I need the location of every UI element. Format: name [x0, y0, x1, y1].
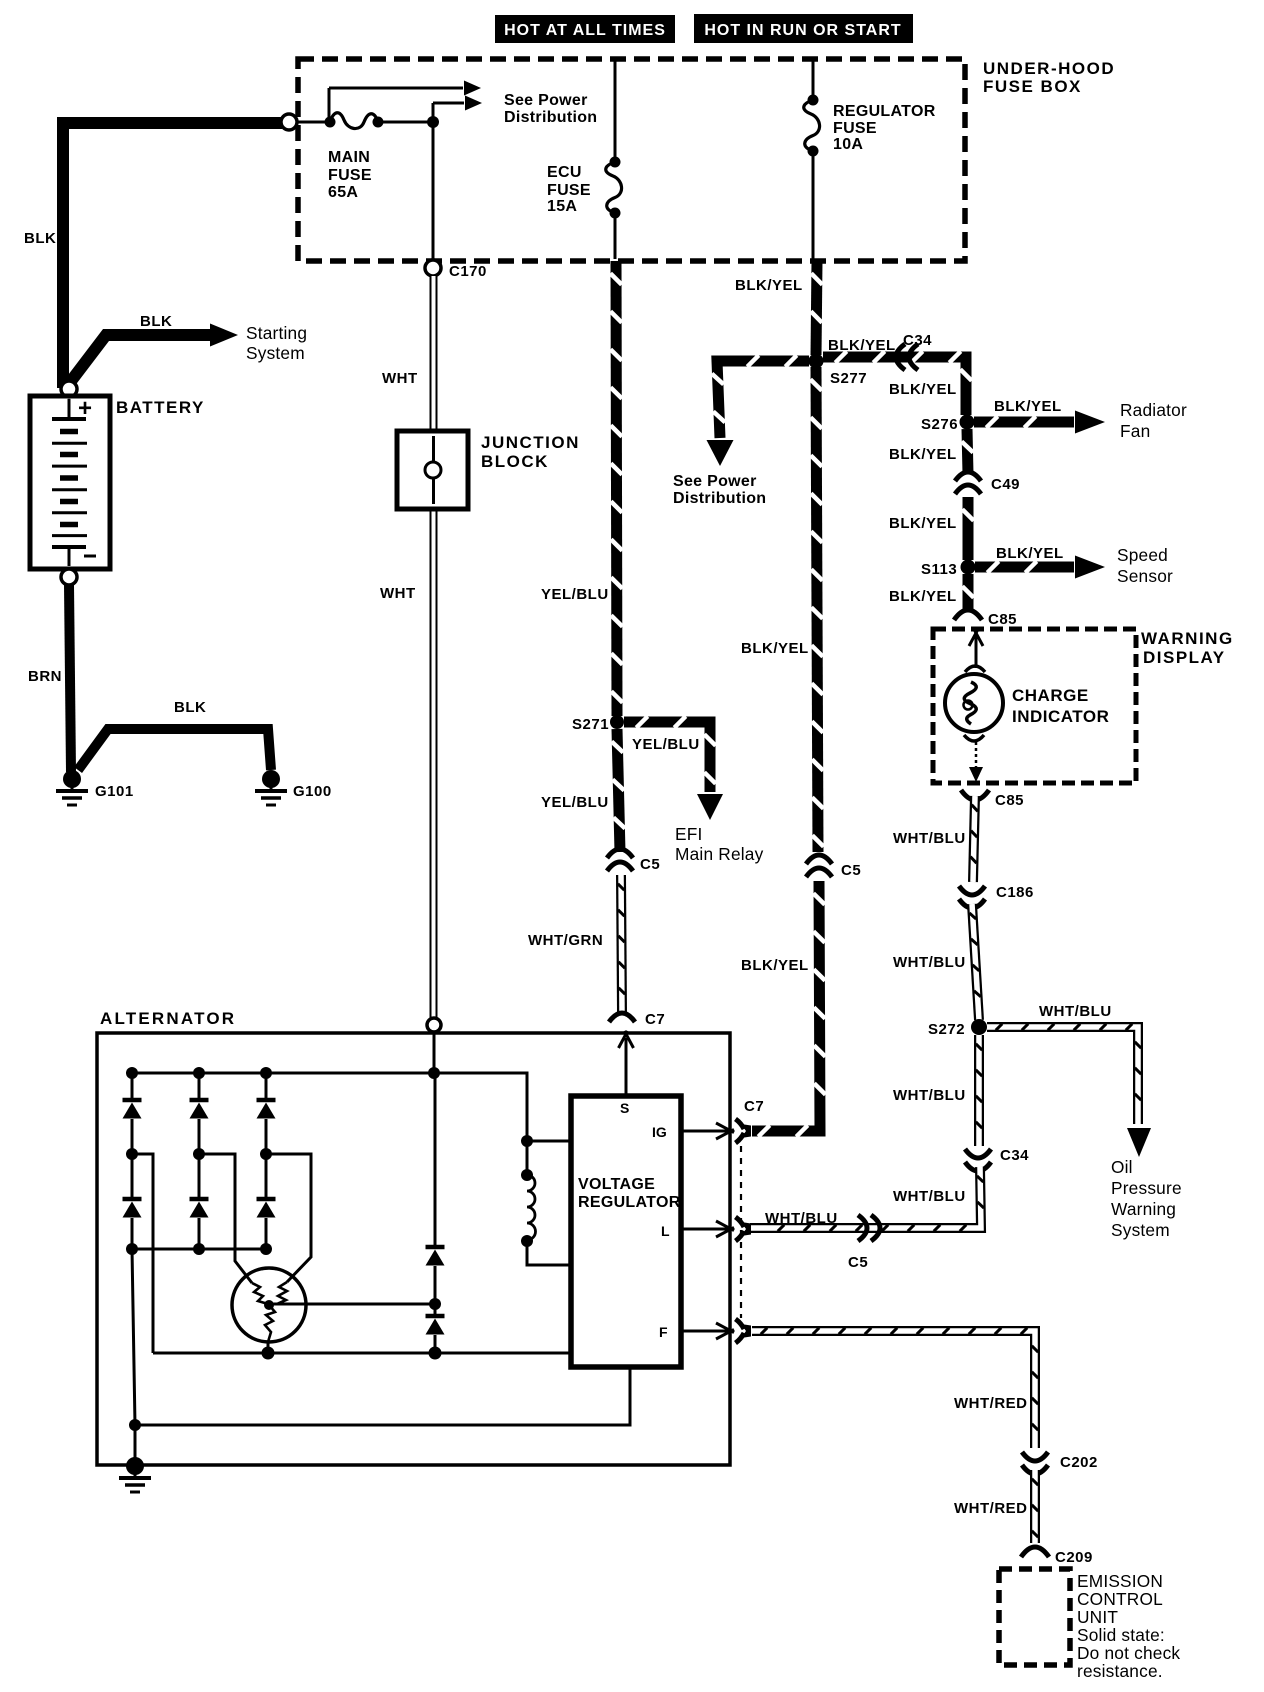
- pin F wire: [681, 1323, 734, 1339]
- svg-text:WHT/RED: WHT/RED: [954, 1500, 1028, 1517]
- header label HOT IN RUN OR START: [694, 14, 913, 43]
- rectifier diode pair column 3: [257, 1073, 276, 1255]
- svg-text:G101: G101: [95, 783, 134, 800]
- svg-text:C209: C209: [1055, 1549, 1093, 1566]
- svg-text:WARNING: WARNING: [1141, 629, 1234, 648]
- svg-text:Radiator: Radiator: [1120, 400, 1187, 420]
- svg-text:resistance.: resistance.: [1077, 1661, 1163, 1681]
- svg-text:BLK: BLK: [140, 313, 172, 330]
- wire phase tap 3 (to stator): [266, 1154, 311, 1282]
- ground G100: [255, 770, 332, 805]
- wire YEL/BLU ECU fuse to S271: [541, 261, 623, 716]
- wire BLK battery to fuse box: [24, 123, 282, 388]
- svg-text:C7: C7: [645, 1011, 665, 1028]
- svg-text:Fan: Fan: [1120, 421, 1150, 441]
- svg-text:YEL/BLU: YEL/BLU: [541, 794, 609, 811]
- svg-text:S: S: [620, 1100, 629, 1116]
- wire BLK/YEL S277 to see power distribution: [673, 355, 809, 507]
- connector C170: [425, 260, 487, 280]
- svg-text:C85: C85: [988, 611, 1017, 628]
- svg-text:DISPLAY: DISPLAY: [1143, 648, 1226, 667]
- connector C186: [959, 884, 1034, 908]
- svg-text:65A: 65A: [328, 184, 358, 201]
- svg-text:WHT/BLU: WHT/BLU: [893, 1188, 966, 1205]
- svg-text:WHT/BLU: WHT/BLU: [893, 830, 966, 847]
- under-hood fuse box (dashed): [298, 59, 1115, 261]
- splice S276: [921, 415, 975, 434]
- svg-text:HOT AT ALL TIMES: HOT AT ALL TIMES: [504, 22, 666, 39]
- voltage regulator U1: [571, 1096, 681, 1367]
- svg-text:Do not check: Do not check: [1077, 1643, 1180, 1663]
- svg-text:WHT: WHT: [382, 370, 418, 387]
- battery BATTERY: [30, 395, 205, 569]
- wire BLK/YEL S276 to C49: [889, 429, 973, 474]
- wire WHT/BLU S272 to oil pressure warning: [987, 1003, 1182, 1240]
- connector at alternator (open circle): [427, 1018, 441, 1032]
- wire alternator top bus: [126, 1067, 569, 1147]
- svg-text:10A: 10A: [833, 136, 863, 153]
- svg-text:BLOCK: BLOCK: [481, 452, 549, 471]
- svg-text:INDICATOR: INDICATOR: [1012, 707, 1109, 726]
- svg-text:YEL/BLU: YEL/BLU: [541, 586, 609, 603]
- svg-text:WHT/BLU: WHT/BLU: [893, 1087, 966, 1104]
- svg-text:UNIT: UNIT: [1077, 1607, 1118, 1627]
- svg-text:C170: C170: [449, 263, 487, 280]
- svg-text:Distribution: Distribution: [673, 490, 766, 507]
- svg-text:Solid state:: Solid state:: [1077, 1625, 1165, 1645]
- wire WHT/BLU C186 to S272: [893, 904, 981, 1020]
- node main fuse output: [427, 116, 439, 128]
- svg-text:Warning: Warning: [1111, 1199, 1176, 1219]
- connector C5 (left): [607, 849, 660, 873]
- svg-text:BLK/YEL: BLK/YEL: [741, 640, 809, 657]
- svg-text:BLK: BLK: [174, 699, 206, 716]
- connector C7 at L pin: [736, 1217, 752, 1241]
- junction block: [397, 431, 580, 509]
- battery negative terminal: [61, 569, 77, 585]
- svg-text:Distribution: Distribution: [504, 109, 597, 126]
- wire phase tap 2 (to stator): [199, 1154, 252, 1283]
- svg-text:FUSE: FUSE: [547, 182, 591, 199]
- wire BLK/YEL C5 to IG pin: [741, 881, 826, 1137]
- main fuse 65A: [297, 113, 433, 201]
- connector C7 (top): [609, 1011, 665, 1028]
- wire WHT/BLU C34 to C5/L pin: [750, 1167, 984, 1231]
- svg-text:BLK/YEL: BLK/YEL: [741, 957, 809, 974]
- svg-text:CHARGE: CHARGE: [1012, 686, 1089, 705]
- field coil (rotor winding): [521, 1141, 569, 1265]
- connector C202: [1022, 1452, 1098, 1474]
- svg-text:C5: C5: [848, 1254, 868, 1271]
- svg-text:Oil: Oil: [1111, 1157, 1133, 1177]
- wire YEL/BLU S271 to C5: [541, 729, 625, 852]
- wire stator bottom lead: [267, 1342, 270, 1353]
- wire BLK/YEL S276 to radiator fan: [974, 398, 1187, 441]
- pin S wire: [619, 1031, 634, 1096]
- connector (open) at fuse box edge: [281, 114, 297, 130]
- rectifier diode pair column 4: [426, 1073, 445, 1353]
- pin L wire: [681, 1221, 734, 1237]
- svg-text:WHT: WHT: [380, 585, 416, 602]
- wire WHT to junction block: [380, 276, 434, 1018]
- svg-text:S271: S271: [572, 716, 609, 733]
- connector C7 at IG pin: [736, 1098, 765, 1143]
- svg-text:C34: C34: [903, 332, 932, 349]
- svg-text:L: L: [661, 1223, 670, 1239]
- svg-text:FUSE BOX: FUSE BOX: [983, 77, 1082, 96]
- svg-text:ALTERNATOR: ALTERNATOR: [100, 1009, 236, 1028]
- wire phase tap 1 (to field bus): [132, 1154, 153, 1353]
- svg-text:IG: IG: [652, 1124, 667, 1140]
- svg-text:S272: S272: [928, 1021, 965, 1038]
- wire WHT circle to bus: [433, 1032, 436, 1073]
- svg-text:Pressure: Pressure: [1111, 1178, 1182, 1198]
- wire stator star point to diodes: [269, 1298, 441, 1310]
- wire bottom bus to voltage regulator: [153, 1347, 571, 1360]
- svg-text:VOLTAGE: VOLTAGE: [578, 1176, 655, 1193]
- svg-text:+: +: [78, 395, 92, 422]
- svg-text:C5: C5: [841, 862, 861, 879]
- svg-text:See Power: See Power: [504, 92, 588, 109]
- svg-text:BLK/YEL: BLK/YEL: [889, 588, 957, 605]
- svg-text:F: F: [659, 1324, 668, 1340]
- connector C34 (lower): [965, 1147, 1029, 1171]
- svg-text:S277: S277: [830, 370, 867, 387]
- wire WHT/BLU C85 to C186: [893, 796, 978, 882]
- svg-text:See Power: See Power: [673, 473, 757, 490]
- wire WHT/RED F pin to C202: [752, 1328, 1038, 1448]
- connector C7 boundary (dashed): [740, 1146, 742, 1318]
- connector C49: [955, 472, 1020, 494]
- svg-text:BLK/YEL: BLK/YEL: [994, 398, 1062, 415]
- wire BLK/YEL S113 to speed sensor: [975, 545, 1173, 586]
- rectifier diode pair column 1: [123, 1073, 142, 1255]
- connector C5 (on L wire): [848, 1215, 880, 1271]
- regulator fuse 10A: [804, 61, 936, 259]
- wire BLK/YEL C49 to S113: [889, 497, 974, 560]
- stator winding (3-phase): [232, 1268, 306, 1342]
- svg-text:WHT/RED: WHT/RED: [954, 1395, 1028, 1412]
- battery positive terminal: [61, 381, 77, 397]
- wire BLK to G100: [78, 699, 271, 770]
- svg-text:System: System: [1111, 1220, 1170, 1240]
- splice S113: [921, 560, 976, 579]
- wire to alternator ground: [129, 1249, 141, 1461]
- svg-text:S276: S276: [921, 416, 958, 433]
- svg-text:REGULATOR: REGULATOR: [578, 1194, 681, 1211]
- alternator box: [97, 1009, 730, 1465]
- svg-text:BLK/YEL: BLK/YEL: [889, 515, 957, 532]
- wire WHT main fuse to C170: [432, 122, 435, 260]
- svg-text:System: System: [246, 343, 305, 363]
- svg-text:BRN: BRN: [28, 668, 62, 685]
- svg-text:15A: 15A: [547, 198, 577, 215]
- svg-text:BLK/YEL: BLK/YEL: [996, 545, 1064, 562]
- wire BLK/YEL regulator fuse to S277: [735, 261, 822, 355]
- svg-text:YEL/BLU: YEL/BLU: [632, 736, 700, 753]
- svg-text:EMISSION: EMISSION: [1077, 1571, 1163, 1591]
- wire WHT/RED C202 to C209: [954, 1470, 1038, 1543]
- connector C34 (top): [896, 332, 932, 370]
- svg-text:Starting: Starting: [246, 323, 307, 343]
- svg-text:BLK/YEL: BLK/YEL: [735, 277, 803, 294]
- wire to see power distribution 1: [329, 81, 597, 127]
- svg-text:S113: S113: [921, 561, 957, 578]
- warning display box (dashed): [933, 629, 1234, 783]
- svg-text:MAIN: MAIN: [328, 149, 370, 166]
- svg-text:BATTERY: BATTERY: [116, 398, 205, 417]
- connector C209: [1021, 1547, 1093, 1566]
- rectifier diode pair column 2: [190, 1073, 209, 1255]
- svg-text:HOT IN RUN OR START: HOT IN RUN OR START: [704, 22, 901, 39]
- wire BLK/YEL S113 to C85: [889, 574, 974, 610]
- svg-text:C202: C202: [1060, 1454, 1098, 1471]
- svg-text:C34: C34: [1000, 1147, 1029, 1164]
- svg-text:WHT/BLU: WHT/BLU: [1039, 1003, 1112, 1020]
- svg-text:BLK/YEL: BLK/YEL: [889, 446, 957, 463]
- svg-text:BLK/YEL: BLK/YEL: [889, 381, 957, 398]
- svg-text:Main Relay: Main Relay: [675, 844, 764, 864]
- pin IG wire: [681, 1123, 734, 1139]
- wire BLK/YEL S277 down to C5: [741, 367, 824, 852]
- svg-text:C5: C5: [640, 856, 660, 873]
- wire lower rectifier bus: [132, 1248, 266, 1251]
- svg-text:WHT/GRN: WHT/GRN: [528, 932, 603, 949]
- svg-text:JUNCTION: JUNCTION: [481, 433, 580, 452]
- connector C5 (right): [806, 855, 861, 879]
- svg-text:BLK: BLK: [24, 230, 56, 247]
- svg-text:CONTROL: CONTROL: [1077, 1589, 1163, 1609]
- charge indicator: [945, 630, 1109, 782]
- wire BLK to starting system: [68, 313, 307, 385]
- svg-text:C186: C186: [996, 884, 1034, 901]
- svg-text:FUSE: FUSE: [328, 167, 372, 184]
- svg-text:C49: C49: [991, 476, 1020, 493]
- svg-text:BLK/YEL: BLK/YEL: [828, 337, 896, 354]
- svg-text:Sensor: Sensor: [1117, 566, 1173, 586]
- svg-text:UNDER-HOOD: UNDER-HOOD: [983, 59, 1115, 78]
- connector C85 (top): [954, 610, 1017, 628]
- wire WHT/BLU S272 to C34: [893, 1035, 982, 1146]
- svg-text:EFI: EFI: [675, 824, 702, 844]
- ground G101: [56, 770, 134, 805]
- svg-text:FUSE: FUSE: [833, 120, 877, 137]
- svg-text:Speed: Speed: [1117, 545, 1168, 565]
- connector C85 (bottom): [961, 790, 1024, 809]
- wire WHT/GRN C5 to C7: [528, 875, 625, 1012]
- svg-text:REGULATOR: REGULATOR: [833, 103, 936, 120]
- svg-text:WHT/BLU: WHT/BLU: [765, 1210, 838, 1227]
- ECU fuse 15A: [547, 61, 622, 259]
- alternator ground: [119, 1457, 151, 1492]
- svg-text:G100: G100: [293, 783, 332, 800]
- splice S271: [572, 715, 624, 733]
- wire BRN battery to G101: [28, 585, 71, 772]
- wire VR bottom return: [135, 1367, 630, 1425]
- svg-text:WHT/BLU: WHT/BLU: [893, 954, 966, 971]
- wire BLK/YEL S277 to C34/S276: [823, 337, 972, 415]
- wire YEL/BLU S271 branch to EFI main relay: [624, 716, 764, 864]
- emission control unit (dashed): [999, 1569, 1180, 1681]
- splice S272: [928, 1019, 987, 1038]
- svg-text:C85: C85: [995, 792, 1024, 809]
- svg-text:C7: C7: [744, 1098, 764, 1115]
- header label HOT AT ALL TIMES: [495, 15, 675, 43]
- svg-text:ECU: ECU: [547, 164, 582, 181]
- splice S277: [809, 354, 868, 388]
- connector C7 at F pin: [736, 1319, 752, 1343]
